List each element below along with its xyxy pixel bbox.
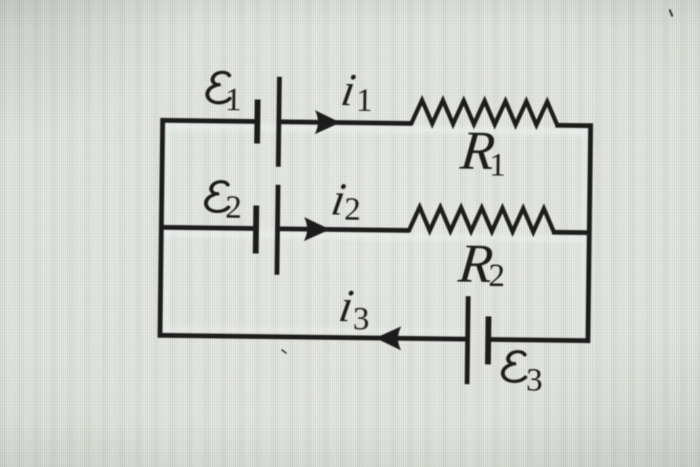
svg-text:3: 3: [526, 362, 543, 398]
svg-text:1: 1: [489, 147, 506, 183]
svg-text:2: 2: [488, 258, 505, 294]
svg-text:1: 1: [356, 83, 373, 119]
svg-text:3: 3: [353, 301, 370, 337]
svg-text:1: 1: [225, 82, 242, 118]
svg-text:2: 2: [225, 190, 242, 226]
svg-text:2: 2: [344, 192, 361, 228]
